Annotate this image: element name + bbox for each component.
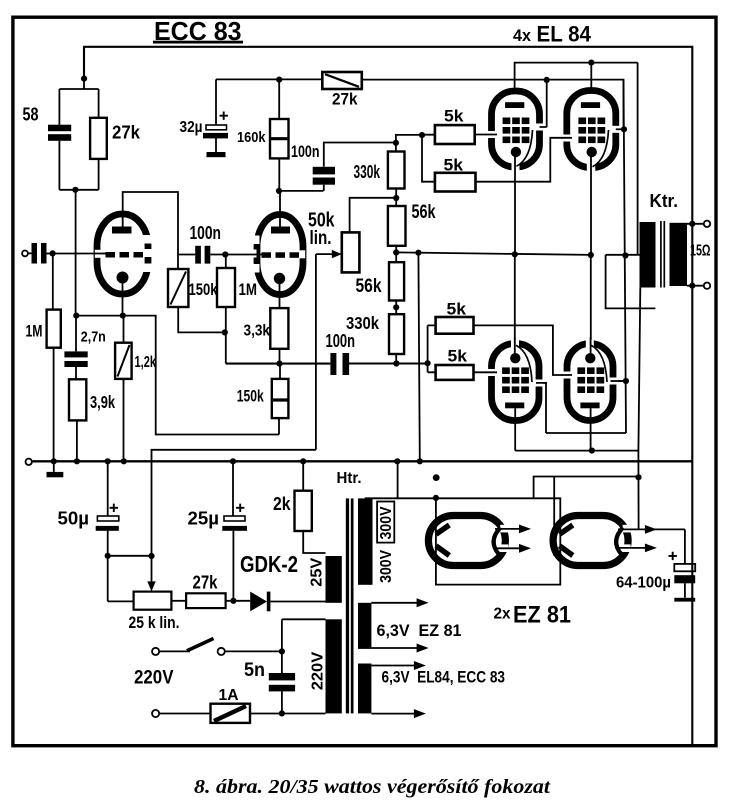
wire 5k to V3 grid [475,134,492,136]
capacitor 32u electrolytic [180,79,229,157]
svg-text:32µ: 32µ [180,119,203,136]
transformer Htr 6,3V EL84 winding [358,664,371,714]
capacitor 100n lower coupling [326,331,356,375]
node gnd divider return [417,458,423,464]
node V3 cathode bus [512,251,518,257]
arrow heater EZ top [371,598,428,607]
wire V5 V6 cathode entries [515,338,591,354]
resistor 27k screen dropper [322,72,362,108]
resistor 1M grid V1b [217,268,257,307]
capacitor 100n to divider [291,142,396,191]
wire 56k-2 bottom lead [395,301,397,315]
wire 150k-1 leads [178,255,226,333]
svg-text:3,3k: 3,3k [244,322,271,339]
svg-text:300V: 300V [378,506,395,540]
node 3,3k/150k-2 [276,361,282,367]
wire EZ81-2 anode feed [534,477,639,557]
arrow EZ81-1 top [495,525,531,534]
svg-text:GDK-2: GDK-2 [240,551,298,577]
wire 330k-1 bottom lead [395,189,397,207]
svg-text:lin.: lin. [310,228,332,249]
node 5n bottom [279,710,285,716]
svg-text:5k: 5k [448,348,468,366]
wire bias line [108,450,316,584]
svg-text:25V: 25V [309,557,326,587]
svg-text:330k: 330k [346,313,379,333]
node 50u bottom [105,553,111,559]
wire 1M top lead [52,254,54,310]
wire V4 screen stub [616,128,624,130]
resistor 3,3k [244,308,289,349]
node screen bus B+ box [622,252,628,258]
transformer Htr 25V winding [326,556,342,603]
arrow EZ81-2 top with wire to cap [618,525,685,534]
svg-text:5k: 5k [444,107,464,125]
transformer Ktr core [661,221,664,288]
tube EZ81 second [553,516,632,566]
svg-text:1A: 1A [219,687,239,704]
resistor 56k second [356,262,405,300]
wire B+ row y79 [216,79,624,129]
transformer Htr 220V winding [326,619,342,713]
wire secondary to terminals [687,224,704,286]
wire V1b cathode lead [279,284,281,308]
capacitor 50u electrolytic [58,461,134,601]
svg-text:8. ábra. 20/35 wattos végerősí: 8. ábra. 20/35 wattos végerősítő fokozat [194,776,552,798]
node V6 anode [589,448,595,454]
terminal output bottom [704,283,710,289]
wire 58/27k split top [59,79,98,125]
terminal ground input [26,459,32,465]
svg-text:27k: 27k [112,122,141,143]
svg-text:150k: 150k [189,280,218,299]
svg-text:27k: 27k [332,89,358,108]
wire V1b anode lead and row [279,191,323,227]
svg-text:100n: 100n [326,331,356,351]
node 58/27k bottom [72,187,78,193]
capacitor 25u electrolytic [188,461,248,601]
node 56k/56k [393,249,399,255]
wire V1a anode lead and row [123,192,178,255]
arrow heater EL bottom [371,709,426,718]
wire V5 cathode lead [514,254,516,342]
tube triode V1b ECC83 [247,215,306,295]
wire V3 screen stub [540,80,547,127]
wire V6 screen stub [613,380,626,382]
wire screen bus vertical [539,80,626,433]
wire upper anode bus y62 [515,63,638,92]
node switch/5n [279,648,285,654]
capacitor 58 [23,104,72,141]
svg-text:160k: 160k [237,129,266,146]
resistor 330k upper divider [354,152,405,189]
label 300V boxed [377,502,395,543]
resistor 150k adjustable [168,269,218,307]
node 25u bottom [230,598,236,604]
wire combo bottom to cathode node [75,190,77,316]
svg-text:25µ: 25µ [188,509,220,529]
node cathode V1a [120,313,126,319]
svg-text:2,7n: 2,7n [81,328,106,345]
node feedback top terminal [689,221,695,227]
node gnd 3,9k [74,458,80,464]
resistor 2k [273,461,326,553]
capacitor 2,7n [64,316,105,380]
resistor 5k grid V5 [436,348,474,380]
svg-text:1,2k: 1,2k [135,354,157,371]
resistor 56k first [388,202,436,246]
resistor 330k lower divider [346,313,404,354]
wire 1M bottom lead to ground bus [53,348,55,462]
node 160k top [276,77,282,83]
ground bus [33,460,693,462]
svg-text:100n: 100n [291,142,320,161]
transformer Htr 6,3V EZ81 winding [358,603,371,649]
wire tube entry stubs [94,135,626,383]
resistor 5k grid V6 [436,301,474,334]
transformer Htr core [346,498,349,713]
node gnd 2k [300,458,306,464]
label 2x EZ 81 [494,601,572,628]
wire 5k to V5 grid [474,371,493,373]
capacitor 5n [244,660,295,714]
tube EL84 V4 [562,91,620,174]
wire input to grid [28,252,106,254]
wire V1a cathode lead [122,283,124,316]
wire lower coupling row [226,362,428,364]
terminal mains bottom [152,710,159,717]
svg-text:220V: 220V [310,651,327,690]
wire 5k to V4 grid [476,138,568,182]
svg-text:1M: 1M [239,280,258,299]
svg-text:300V: 300V [378,549,395,583]
node 58/27k top [81,76,87,82]
svg-text:100n: 100n [190,223,222,243]
arrow heater EZ bottom [371,644,428,653]
resistor 27k anode-left [90,118,141,159]
svg-text:Htr.: Htr. [337,470,362,487]
svg-text:58: 58 [23,104,39,125]
node feedback bottom terminal [689,283,695,289]
wire EZ81 anode loop [398,498,561,585]
wire 160k leads [278,80,280,191]
resistor 5k grid V3 [435,107,475,144]
svg-text:64-100µ: 64-100µ [616,575,671,592]
wire V4 cathode lead [590,156,592,343]
wire: feedback top bus and right column [84,47,692,746]
resistor 1M (input) [47,310,61,348]
capacitor 100n interstage [190,223,222,264]
svg-text:2k: 2k [273,494,291,514]
svg-text:6,3V EL84, ECC 83: 6,3V EL84, ECC 83 [382,668,506,687]
wire 330k-2 bottom lead [395,354,397,364]
wire cathode row V1a [76,316,279,435]
svg-text:330k: 330k [354,162,381,182]
tube EL84 V5 lower [487,340,544,421]
label 4x EL84 [513,21,591,46]
node cathode network top [73,313,79,319]
node 56k-2/330k-2 [393,304,399,310]
svg-text:3,9k: 3,9k [90,392,115,412]
node input/1M junction [50,250,56,256]
tube EL84 V3 [487,91,545,172]
transformer Ktr primary winding [640,222,656,288]
svg-text:50µ: 50µ [58,509,90,529]
label ECC 83 [153,16,243,46]
node 150k/1M bottom junction [222,329,228,335]
svg-text:EZ 81: EZ 81 [513,601,571,628]
wiper arrow 25k pot [147,581,155,591]
svg-text:15Ω: 15Ω [690,243,711,260]
wire 300V top lead to bus [366,461,398,501]
resistor 5k grid V4 [435,157,476,192]
resistor 150k lower [237,379,289,418]
node 5k lower stub [425,360,431,366]
svg-text:150k: 150k [237,388,265,406]
node gnd 50u [105,458,111,464]
node bias wiper [148,553,154,559]
node V1b anode/160k [276,188,282,194]
wire primary anode line [638,63,641,530]
wire lower anode bus [515,408,638,450]
stray junction dot [433,474,440,481]
arrow EZ81-1 bottom [495,544,531,553]
input terminal [22,251,28,257]
wire divider return to ground bus [418,253,419,461]
wire V3 cathode lead [514,156,516,254]
node upper 5k riser top [419,132,425,138]
wire 56k junction [395,246,397,262]
wire 100n leads [178,254,259,256]
svg-text:4x: 4x [513,27,532,45]
tube EL84 V6 lower [562,340,618,421]
node 330k-2/row [393,360,399,366]
wire 220V winding top lead [282,619,326,673]
wire 3,3k bottom lead [279,349,281,364]
node V6 screen [623,378,629,384]
svg-text:EL 84: EL 84 [537,21,592,46]
wire 5k to V6 grid [474,325,568,375]
node gnd 1,2k [121,458,127,464]
node gnd 300V [394,458,400,464]
node gnd 1M [51,458,57,464]
arrow EZ81-2 bottom [618,544,657,553]
svg-text:1M: 1M [26,321,43,340]
svg-text:56k: 56k [356,276,382,297]
switch mains [159,639,282,656]
wire B+ box at primary [606,255,656,309]
capacitor 64-100u electrolytic [616,529,695,601]
wire upper 5k riser [422,135,435,182]
svg-text:6,3V EZ 81: 6,3V EZ 81 [377,621,462,640]
node divider top [393,195,399,201]
transformer Htr 300V winding [358,498,373,584]
node divider return [415,250,421,256]
node 100n/330k-1 [393,140,399,146]
svg-text:220V: 220V [134,667,174,689]
wire 150k-2 leads [279,364,280,435]
wire 1M-2 leads [225,255,227,364]
node V4 screen [621,126,627,132]
ground symbol [47,462,64,478]
tube triode V1a ECC83 [95,214,154,294]
terminal output top [704,221,710,227]
node gnd 25u [230,458,236,464]
wire cathode bus y253 [396,252,591,255]
wire 58/27k bottom bar [59,141,98,190]
svg-text:27k: 27k [193,572,219,592]
node EZ81-2 feed [635,474,641,480]
node V4 cathode bus [588,252,594,258]
transformer Ktr secondary winding [670,223,688,286]
wire 330k-1 top lead [396,135,422,152]
node V4 anode [588,60,594,66]
arrow heater EL top [371,661,426,670]
svg-text:5n: 5n [244,660,265,681]
node screen V3 [544,77,550,83]
resistor 27k bias [186,572,250,608]
potentiometer 50k lin [308,198,396,450]
wire lower 5k stub [428,325,436,372]
svg-text:Ktr.: Ktr. [650,191,679,211]
resistor 1,2k adjustable [115,316,156,462]
svg-text:56k: 56k [412,202,436,223]
diode GDK-2 [240,551,326,611]
svg-text:25 k lin.: 25 k lin. [129,613,180,632]
resistor 3,9k [69,379,115,461]
potentiometer 25k lin [129,592,187,632]
node EZ81-1 anode top [433,495,439,501]
fuse 1A [159,687,325,723]
capacitor input coupling [32,243,47,264]
tube EZ81 first [428,516,510,566]
terminal mains top [152,648,159,655]
svg-text:2x: 2x [494,606,511,623]
node 1M-2 top [222,251,228,257]
resistor 160k [237,119,289,158]
